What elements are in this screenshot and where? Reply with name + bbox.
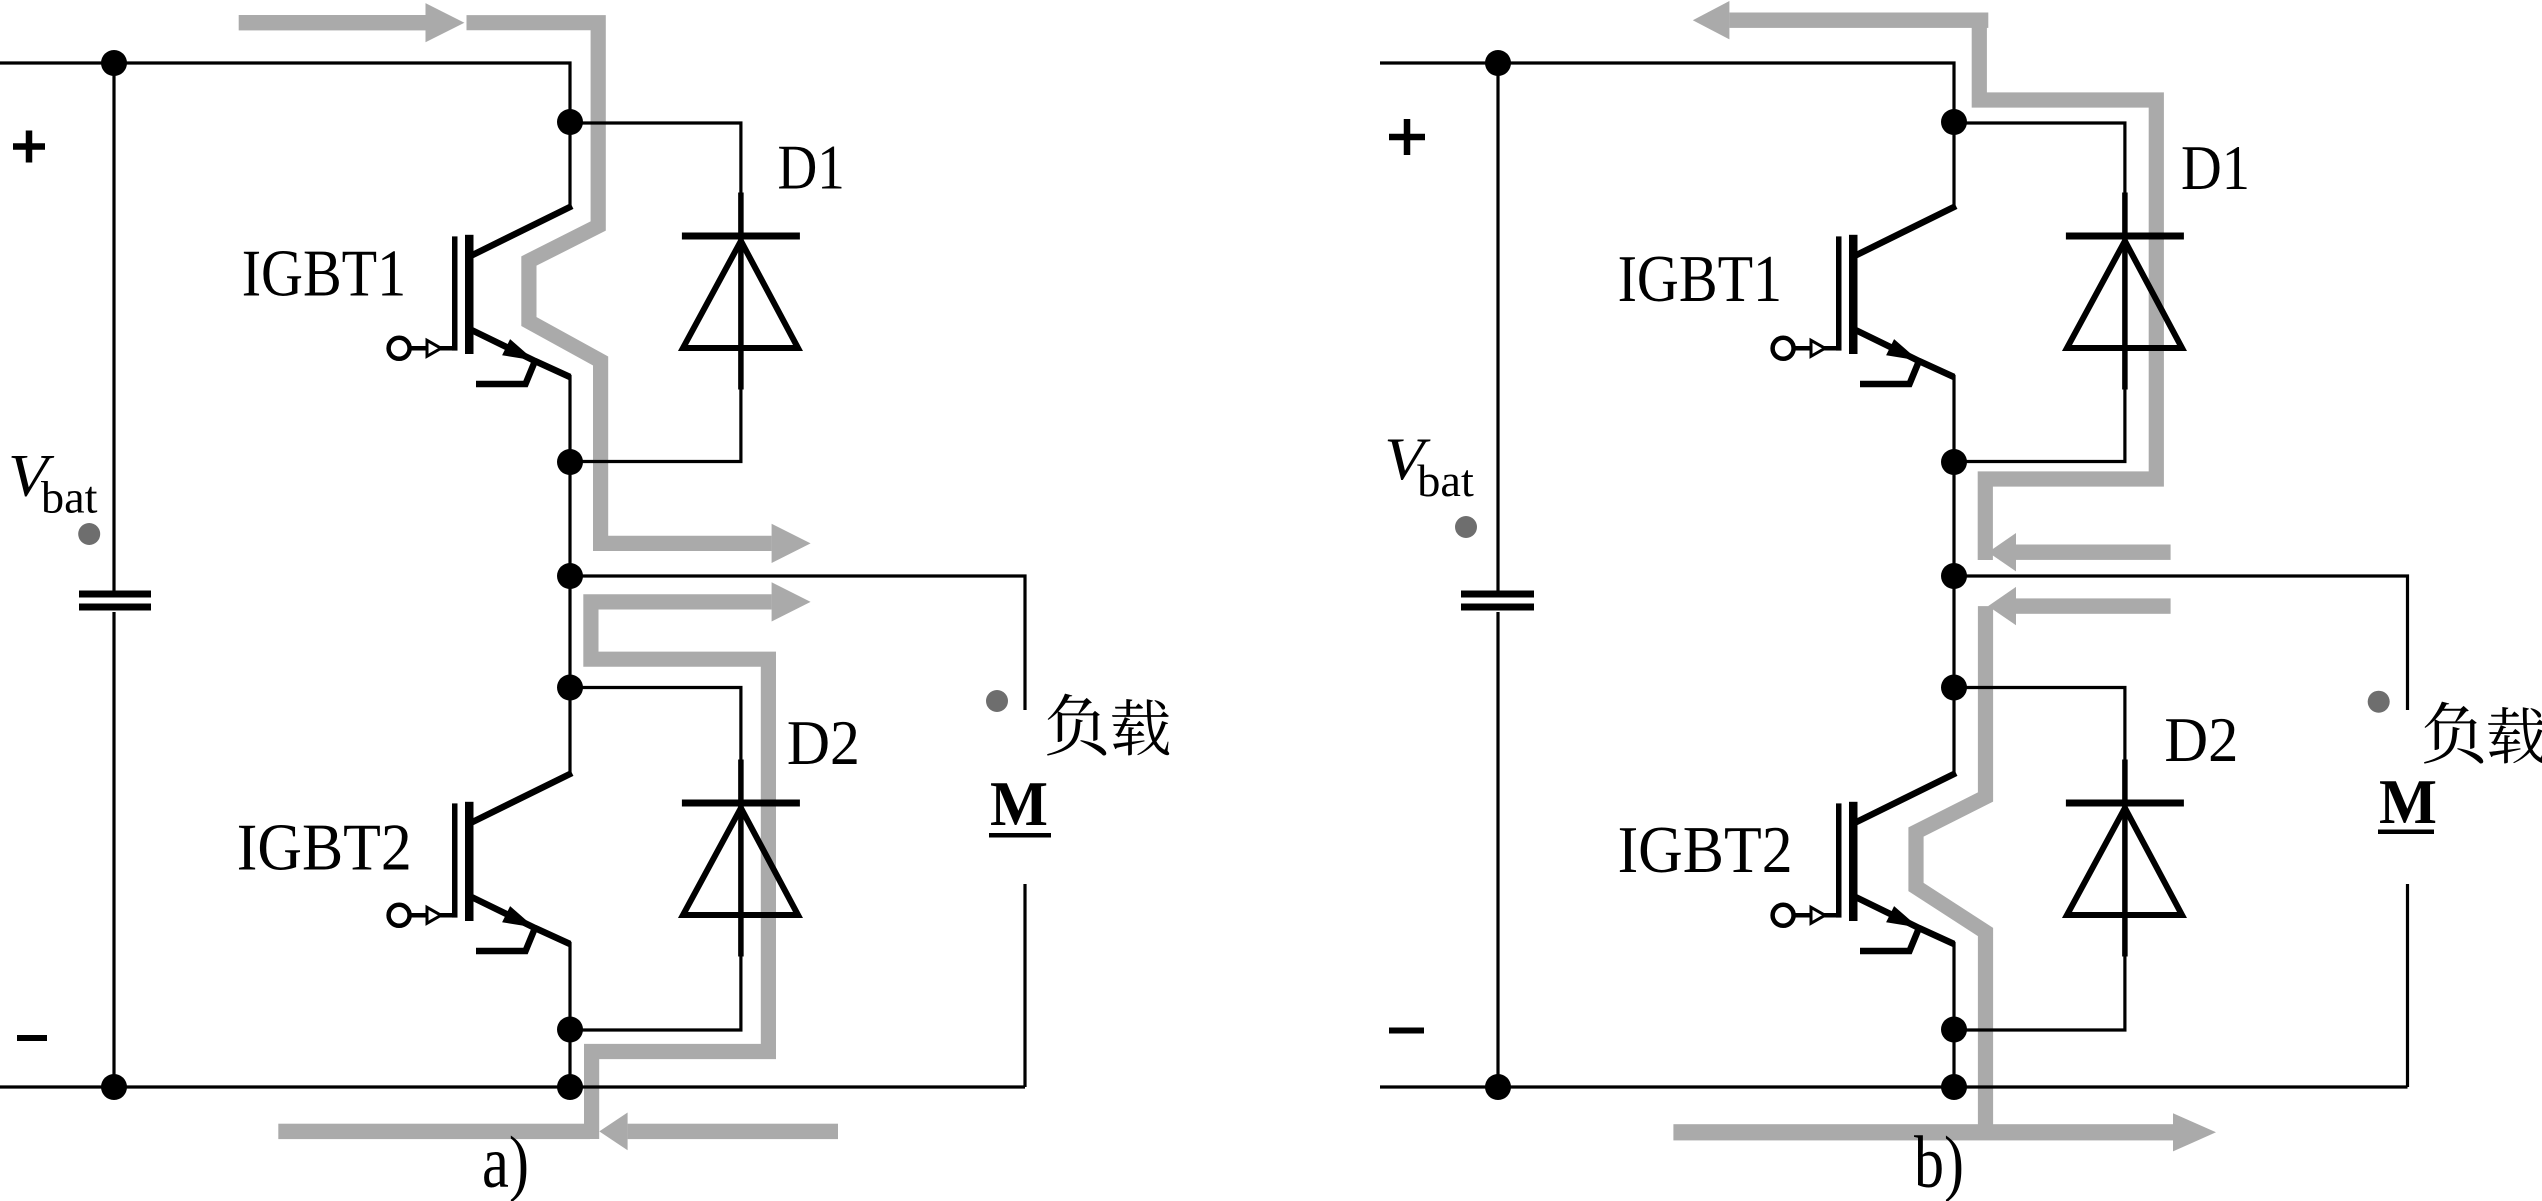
diode D1 triangle	[2067, 241, 2182, 348]
capacitor C (battery) figure a	[79, 591, 151, 598]
transistor IGBT2 gate terminal circle	[1773, 905, 1794, 926]
label load (Chinese) figure b	[2424, 702, 2483, 764]
svg-text:D2: D2	[787, 708, 860, 778]
wire: figure a D2 branch loop	[570, 688, 741, 1031]
transistor IGBT2 emitter lead	[470, 896, 571, 944]
diode D2 cathode bar	[2066, 800, 2184, 807]
svg-text:M: M	[990, 768, 1048, 839]
node: figure a D2 cathode top	[557, 675, 583, 701]
svg-text:IGBT1: IGBT1	[1618, 242, 1783, 316]
minus terminal figure b	[1389, 1028, 1424, 1034]
node load gray dot figure b	[2368, 691, 2390, 713]
wire: figure b D2 branch loop	[1954, 688, 2125, 1031]
diode D2 lead	[738, 760, 744, 957]
label load (Chinese) figure a	[1047, 694, 1106, 756]
transistor IGBT2 body bar	[1849, 802, 1858, 921]
figure b: gray bottom band with right arrowhead	[1673, 1124, 2173, 1140]
node: figure b leg bottom on rail	[1941, 1074, 1967, 1100]
diode D2 triangle	[2067, 808, 2182, 915]
diode D1 cathode bar	[2066, 233, 2184, 240]
transistor IGBT1 emitter tail	[476, 361, 535, 384]
node: figure b bottom rail left	[1485, 1074, 1511, 1100]
wire: figure b phase-leg verticals	[1952, 122, 1955, 1087]
node: figure b D2 cathode top	[1941, 675, 1967, 701]
node: figure a IGBT1 emitter / D1 anode	[557, 449, 583, 475]
transistor IGBT2 emitter arrowhead	[1886, 906, 1918, 927]
transistor IGBT1 collector lead	[1854, 206, 1957, 257]
figure b: gray current path through IGBT2 (boost conduction)	[2012, 598, 2171, 613]
wire: figure b top rail	[1380, 63, 1954, 123]
figure a: gray bottom return band with left arrowhead	[278, 1124, 590, 1139]
wire: figure a load connection	[570, 576, 1025, 1087]
node Vbat gray dot figure a	[78, 523, 100, 545]
transistor IGBT1 gate open arrowhead	[427, 340, 441, 356]
transistor IGBT1 collector lead	[470, 206, 573, 257]
node: figure b IGBT1 emitter / D1 anode	[1941, 449, 1967, 475]
wire: figure b battery left rail	[1496, 63, 1499, 1087]
plus terminal figure a	[13, 131, 45, 163]
wire: figure a bottom rail	[0, 1085, 1025, 1088]
transistor IGBT1 gate terminal circle	[1773, 338, 1794, 359]
wire: figure b load connection	[1954, 576, 2408, 1087]
transistor IGBT1 emitter lead	[470, 329, 571, 377]
svg-text:M: M	[2379, 766, 2437, 837]
transistor IGBT1 gate lead	[409, 346, 453, 351]
transistor IGBT2 gate lead	[1793, 913, 1837, 918]
transistor IGBT1 emitter arrowhead	[1886, 339, 1918, 360]
svg-text:IGBT2: IGBT2	[237, 811, 412, 885]
transistor IGBT2 gate bar	[1836, 803, 1842, 917]
svg-text:b): b)	[1914, 1122, 1964, 1201]
node: figure a midpoint load tap	[557, 563, 583, 589]
transistor IGBT2 gate lead	[409, 913, 453, 918]
figure a: gray current path through D2 (freewheel)	[591, 602, 772, 1139]
plus terminal figure b	[1389, 119, 1425, 155]
svg-text:D1: D1	[778, 132, 845, 202]
transistor IGBT2 emitter arrowhead	[502, 906, 534, 927]
node: figure a leg top	[557, 109, 583, 135]
diode D1 lead	[2122, 193, 2128, 390]
transistor IGBT2 gate terminal circle	[389, 905, 410, 926]
wire: figure a D1 branch loop	[570, 123, 741, 462]
svg-text:IGBT1: IGBT1	[242, 237, 407, 311]
node: figure a bottom rail left	[101, 1074, 127, 1100]
wire: figure a phase-leg verticals	[568, 122, 571, 1087]
node: figure a leg bottom on rail	[557, 1074, 583, 1100]
transistor IGBT2 emitter lead	[1854, 896, 1955, 944]
transistor IGBT2 emitter tail	[1860, 928, 1919, 951]
transistor IGBT2 gate bar	[452, 803, 458, 917]
transistor IGBT1 emitter lead	[1854, 329, 1955, 377]
svg-text:bat: bat	[1417, 455, 1474, 506]
transistor IGBT1 gate bar	[1836, 236, 1842, 350]
node: figure b IGBT2 emitter / D2 anode	[1941, 1017, 1967, 1043]
figure b: gray current path through D1 (regeneration)	[1693, 1, 1730, 39]
minus terminal figure a	[17, 1035, 47, 1041]
node: figure b leg top	[1941, 109, 1967, 135]
node: figure a top rail junction	[101, 50, 127, 76]
transistor IGBT1 gate bar	[452, 236, 458, 350]
wire: figure a battery left rail	[112, 63, 115, 1087]
svg-text:bat: bat	[41, 471, 98, 522]
transistor IGBT2 collector lead	[470, 773, 573, 824]
diode D1 triangle	[683, 241, 798, 348]
node load gray dot figure a	[986, 690, 1008, 712]
transistor IGBT2 gate open arrowhead	[1811, 907, 1825, 923]
transistor IGBT2 collector lead	[1854, 773, 1957, 824]
transistor IGBT1 emitter arrowhead	[502, 339, 534, 360]
transistor IGBT2 body bar	[465, 802, 474, 921]
node: figure b top rail junction	[1485, 50, 1511, 76]
svg-text:D2: D2	[2164, 705, 2238, 775]
transistor IGBT1 gate terminal circle	[389, 338, 410, 359]
transistor IGBT1 body bar	[1849, 235, 1858, 354]
diode D2 lead	[2122, 760, 2128, 957]
node: figure b midpoint load tap	[1941, 563, 1967, 589]
svg-text:IGBT2: IGBT2	[1618, 813, 1793, 887]
wire: figure b bottom rail	[1380, 1085, 2408, 1088]
diode D2 triangle	[683, 808, 798, 915]
transistor IGBT1 gate lead	[1793, 346, 1837, 351]
transistor IGBT1 emitter tail	[1860, 361, 1919, 384]
transistor IGBT1 body bar	[465, 235, 474, 354]
transistor IGBT2 emitter tail	[476, 928, 535, 951]
capacitor C (battery) figure b	[1461, 591, 1534, 598]
wire: figure a top rail	[0, 63, 570, 123]
wire: figure b D1 branch loop	[1954, 123, 2125, 462]
transistor IGBT1 gate open arrowhead	[1811, 340, 1825, 356]
node Vbat gray dot figure b	[1455, 516, 1477, 538]
diode D2 cathode bar	[682, 800, 800, 807]
svg-text:a): a)	[482, 1122, 529, 1201]
transistor IGBT2 gate open arrowhead	[427, 907, 441, 923]
node: figure a IGBT2 emitter / D2 anode	[557, 1017, 583, 1043]
figure a: gray current path through IGBT1 (top arrow + zig)	[239, 15, 426, 30]
diode D1 lead	[738, 193, 744, 390]
diode D1 cathode bar	[682, 233, 800, 240]
svg-text:D1: D1	[2181, 133, 2250, 203]
